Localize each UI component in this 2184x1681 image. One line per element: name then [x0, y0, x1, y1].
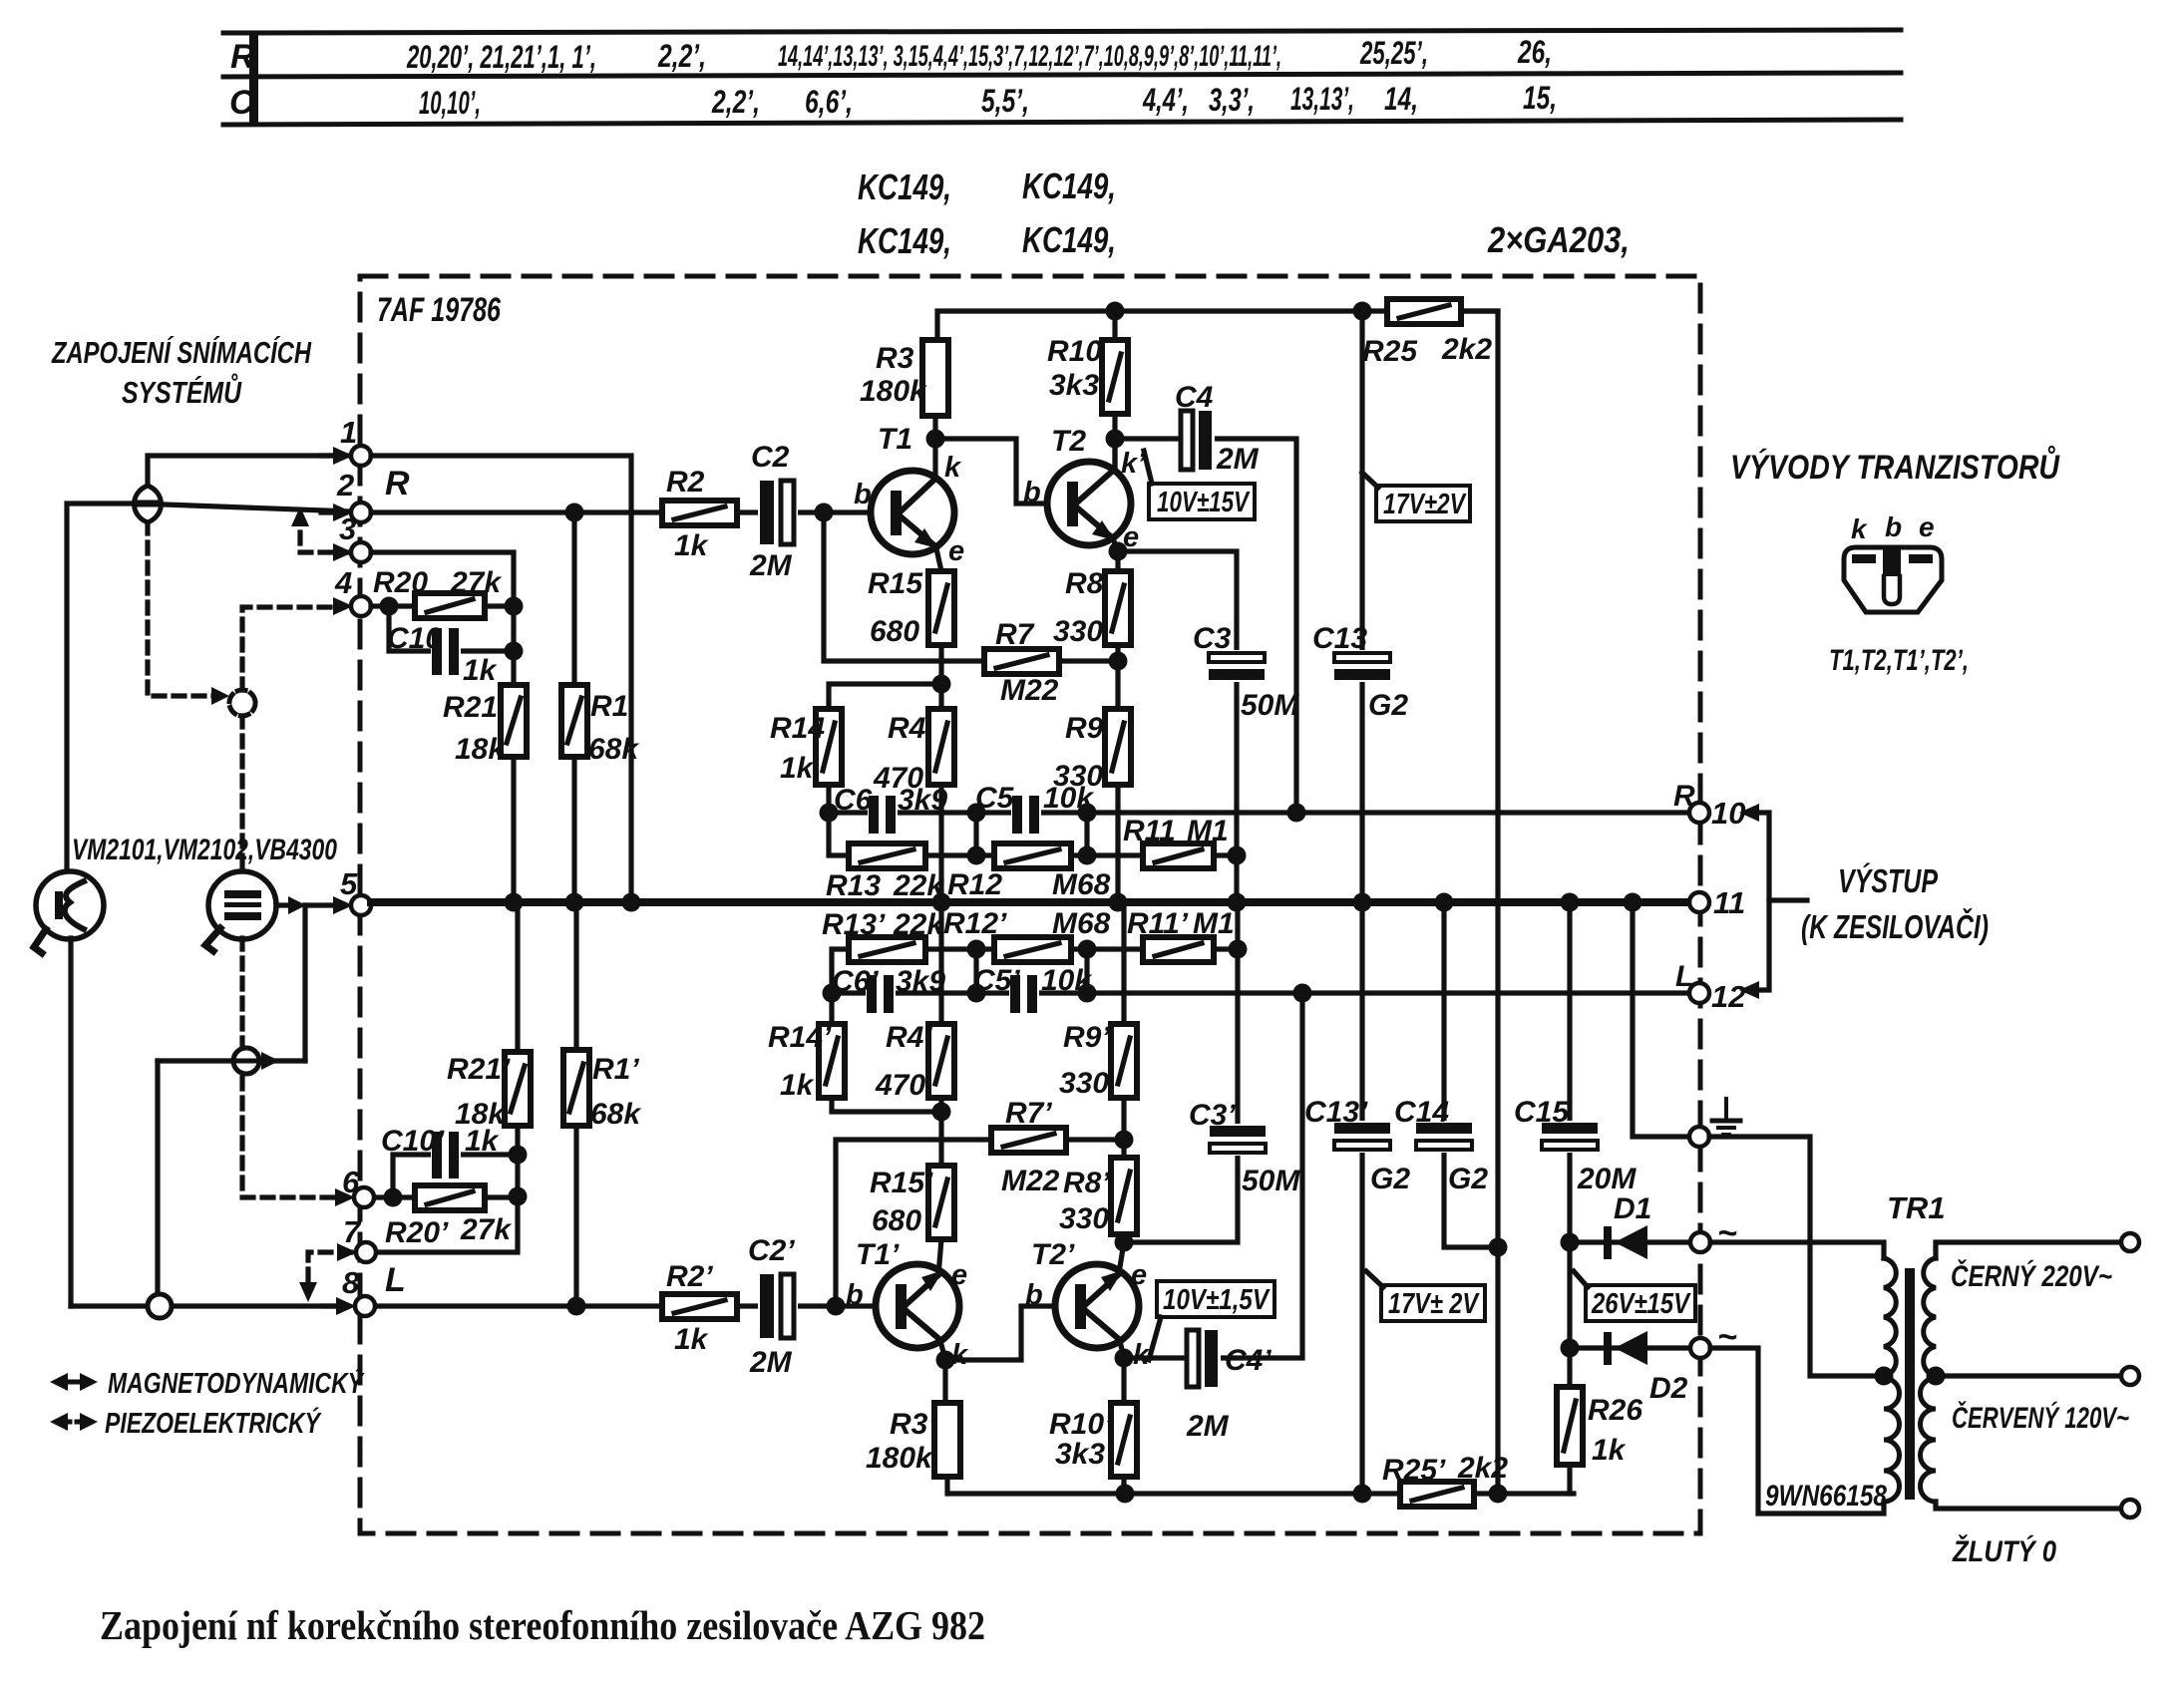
svg-text:2M: 2M [1186, 1410, 1230, 1443]
svg-text:R26: R26 [1588, 1394, 1642, 1427]
svg-text:M1: M1 [1193, 907, 1235, 940]
svg-text:C15: C15 [1514, 1096, 1570, 1129]
svg-text:C2ʼ: C2ʼ [748, 1234, 795, 1267]
connector ring symbol (magnetodynamic L) [148, 1294, 172, 1318]
terminal 6 [335, 1188, 355, 1206]
wire C15 column [1567, 902, 1572, 1124]
wire R14 branch [829, 684, 941, 709]
connector lens symbol (magnetodynamic R) [135, 486, 162, 522]
wire C6prime right to R13prime R12prime node [976, 949, 1087, 993]
wire L feed to terminal8 [71, 1303, 336, 1308]
svg-text:ŽLUTÝ 0: ŽLUTÝ 0 [1952, 1534, 2056, 1568]
node R10prime rail junction [1116, 1485, 1135, 1504]
svg-text:R15ʼ: R15ʼ [870, 1167, 933, 1199]
magnetodynamic pickup VM2101 [36, 871, 104, 939]
wire T2prime emitter to C3prime [1124, 1154, 1238, 1242]
svg-text:ČERNÝ 220V~: ČERNÝ 220V~ [1951, 1259, 2112, 1293]
node C10 right junction [505, 642, 524, 661]
svg-text:b: b [1025, 1279, 1043, 1311]
svg-text:T1,T2,T1ʼ,T2ʼ,: T1,T2,T1ʼ,T2ʼ, [1829, 644, 1969, 677]
wire R10 column [1112, 311, 1117, 474]
svg-text:R12: R12 [947, 868, 1002, 901]
svg-text:18k: 18k [455, 1098, 506, 1131]
node T1 collector [926, 430, 945, 449]
svg-text:2k2: 2k2 [1441, 333, 1492, 366]
svg-text:R14ʼ: R14ʼ [768, 1021, 832, 1054]
wire dashed piezo to terminal6 [242, 1194, 339, 1199]
svg-text:9WN66158: 9WN66158 [1765, 1480, 1887, 1513]
wire piezo node down [302, 905, 307, 1061]
wire C3prime column to ground bus [1235, 902, 1240, 1128]
svg-text:2M: 2M [749, 549, 793, 582]
wire C6 C5 output row to terminal 10 [829, 810, 1690, 815]
wire T1prime emitter to R15prime R4prime column [938, 902, 941, 1275]
svg-text:M68: M68 [1052, 907, 1111, 940]
capacitor C6prime [866, 975, 896, 1013]
svg-text:C14: C14 [1394, 1096, 1449, 1129]
svg-text:VÝSTUP: VÝSTUP [1838, 862, 1939, 899]
wire C10prime branch [393, 1155, 518, 1197]
wire C5prime right to R12prime R11prime node [1087, 949, 1238, 993]
svg-text:KC149,: KC149, [858, 167, 951, 207]
component list table [223, 30, 1901, 125]
svg-text:k: k [1851, 513, 1868, 544]
wire L output row to terminal 12 [832, 990, 1690, 995]
svg-text:1k: 1k [780, 752, 815, 785]
svg-text:2×GA203,: 2×GA203, [1487, 219, 1630, 260]
node R11 C3 junction [1228, 846, 1247, 865]
capacitor C14 [1414, 1121, 1474, 1153]
wire T1 emitter to R15 R4 column [935, 544, 941, 902]
node R1 bus junction [565, 893, 584, 912]
svg-text:R4: R4 [888, 712, 926, 745]
svg-text:26,: 26, [1517, 34, 1552, 70]
svg-text:470: 470 [875, 1069, 925, 1102]
svg-text:T2: T2 [1051, 425, 1086, 458]
svg-text:5,5ʼ,: 5,5ʼ, [981, 83, 1029, 119]
svg-text:C10: C10 [387, 622, 442, 655]
wire R8prime R9prime column [1119, 902, 1124, 1273]
node arrow on L branch [261, 1052, 279, 1070]
svg-text:R10: R10 [1047, 335, 1102, 368]
transformer TR1 secondary winding [1924, 1258, 1936, 1376]
terminal 220V [2121, 1233, 2139, 1251]
node output bracket with arrows [1739, 804, 1807, 999]
terminal 1 [333, 447, 353, 465]
wire pickup bottom to L wire [68, 938, 73, 1306]
node R13prime R12prime junction [967, 940, 986, 959]
node D2 R26 junction [1561, 1339, 1580, 1358]
resistor R11prime [1143, 937, 1214, 962]
node primary center tap [1875, 1367, 1894, 1386]
wire dashed terminal3 probe [300, 526, 351, 552]
svg-text:k: k [951, 1339, 969, 1371]
node C5 output junction [1078, 804, 1097, 823]
svg-text:b: b [1885, 511, 1902, 542]
svg-text:2k2: 2k2 [1457, 1452, 1508, 1485]
node terminal4 junction [380, 597, 399, 616]
wire C14 column [1441, 902, 1446, 1124]
wire R1 column [571, 512, 576, 902]
wire R21prime column to bus [515, 1126, 520, 1155]
svg-text:R7: R7 [995, 618, 1035, 651]
node R15 R4 R14 junction [932, 675, 951, 694]
wire R13 row [829, 813, 976, 855]
terminal 2 [333, 504, 353, 521]
svg-text:KC149,: KC149, [1022, 219, 1116, 260]
svg-text:KC149,: KC149, [858, 220, 951, 261]
svg-text:SYSTÉMŮ: SYSTÉMŮ [122, 372, 242, 410]
diode D2 [1604, 1331, 1647, 1365]
svg-text:14,: 14, [1384, 81, 1418, 117]
node R12prime R11prime junction [1078, 940, 1097, 959]
node C6prime C5prime junction [967, 984, 986, 1003]
wire C4prime row [1124, 1355, 1187, 1360]
svg-text:1k: 1k [780, 1069, 815, 1102]
svg-text:3k3: 3k3 [1049, 369, 1099, 402]
svg-text:C2: C2 [751, 441, 790, 474]
wire secondary 220V [1936, 1242, 2121, 1258]
node C6 C5 junction [967, 804, 986, 823]
svg-text:PIEZOELEKTRICKÝ: PIEZOELEKTRICKÝ [105, 1407, 322, 1440]
svg-text:G2: G2 [1448, 1163, 1488, 1195]
wire R21 column to bus [511, 757, 516, 902]
svg-text:1k: 1k [674, 529, 709, 562]
node R14prime C6prime junction [823, 984, 842, 1003]
svg-text:7: 7 [343, 1214, 362, 1249]
node T1 base junction [815, 504, 834, 522]
resistor R7prime [991, 1128, 1066, 1153]
transistor T2 [1047, 462, 1131, 545]
svg-text:C13: C13 [1312, 622, 1367, 655]
svg-text:R20: R20 [373, 566, 428, 599]
svg-text:14,14ʼ,13,13ʼ, 3,15,4,4ʼ,15,3ʼ: 14,14ʼ,13,13ʼ, 3,15,4,4ʼ,15,3ʼ,7,12,12ʼ,… [778, 40, 1281, 73]
wire R input row terminal2 to T1 base [371, 509, 872, 514]
svg-text:R2: R2 [666, 466, 705, 499]
terminal 8 [336, 1297, 356, 1315]
svg-text:R4ʼ: R4ʼ [886, 1021, 932, 1054]
svg-text:R25ʼ: R25ʼ [1382, 1454, 1446, 1487]
resistor R1prime [563, 1050, 589, 1126]
resistor R15prime [928, 1166, 954, 1239]
resistor R26 [1557, 1387, 1583, 1465]
capacitor C5 [1011, 796, 1041, 834]
svg-text:2,2ʼ,: 2,2ʼ, [657, 38, 706, 74]
terminal 5 [333, 896, 353, 914]
wire supply rail bottom [948, 1491, 1574, 1496]
svg-text:C10ʼ: C10ʼ [381, 1125, 445, 1158]
wire T1prime base feedback up [836, 1140, 991, 1306]
node R1prime bottom junction [567, 1297, 586, 1316]
svg-text:R8ʼ: R8ʼ [1063, 1167, 1110, 1199]
transformer TR1 primary winding [1884, 1258, 1896, 1376]
svg-text:R8: R8 [1065, 567, 1104, 600]
wire ground terminal to primary center tap [1709, 1137, 1884, 1376]
svg-text:1: 1 [340, 415, 357, 450]
resistor R12 [994, 843, 1071, 868]
svg-text:R21ʼ: R21ʼ [447, 1053, 511, 1086]
node T1prime base junction [827, 1297, 846, 1316]
wire secondary 120V tap [1936, 1373, 2121, 1378]
svg-text:R14: R14 [770, 712, 825, 745]
wire D2 row [1570, 1345, 1689, 1350]
svg-text:b: b [1023, 477, 1041, 508]
transistor T1 [871, 471, 954, 554]
wire R1prime column [573, 1126, 578, 1306]
wire L branch down to ring [155, 1061, 160, 1295]
capacitor C5prime [1009, 975, 1039, 1013]
node legend dashed double arrow [62, 1420, 86, 1425]
capacitor C2 [758, 481, 798, 544]
svg-text:R1: R1 [590, 690, 628, 723]
value callout 10V±15V [1144, 451, 1255, 519]
wire terminal3 to R20 junction [371, 552, 514, 604]
svg-text:27k: 27k [460, 1213, 512, 1246]
node R25prime rail junction [1353, 1485, 1372, 1504]
svg-text:C3: C3 [1193, 622, 1232, 655]
node T2 collector [1106, 430, 1125, 449]
resistor R7 [984, 649, 1059, 674]
dashed module box 7AF19786 [360, 276, 1700, 1533]
svg-text:50M: 50M [1241, 689, 1299, 722]
svg-text:1k: 1k [674, 1323, 709, 1356]
capacitor C4prime [1185, 1330, 1221, 1387]
wire table vertical divider [249, 31, 258, 123]
wire R14prime top to C6prime node [829, 993, 834, 1024]
svg-text:6,6ʼ,: 6,6ʼ, [805, 84, 853, 120]
wire terminal4 row through R20 [371, 606, 514, 685]
svg-text:VÝVODY TRANZISTORŮ: VÝVODY TRANZISTORŮ [1730, 446, 2060, 487]
wire R10prime column [1121, 1358, 1126, 1403]
wire D1 row [1570, 1239, 1689, 1244]
svg-text:D1: D1 [1614, 1192, 1651, 1225]
transformer core [1905, 1268, 1915, 1500]
node R11prime C3prime junction [1229, 940, 1248, 959]
svg-text:VM2101,VM2102,VB4300: VM2101,VM2102,VB4300 [72, 834, 337, 866]
capacitor C10prime [431, 1132, 461, 1178]
input terminals 1-8 [321, 446, 376, 1316]
wire T2prime collector node [1119, 1337, 1124, 1358]
svg-text:1k: 1k [1592, 1434, 1627, 1467]
value callout 26V±15V [1574, 1271, 1695, 1321]
svg-text:27k: 27k [450, 566, 502, 599]
node C10prime right junction [509, 1146, 528, 1165]
svg-text:T1ʼ: T1ʼ [856, 1238, 900, 1271]
wire ground bus (thick) [371, 898, 1690, 906]
resistor R4 [928, 709, 954, 785]
svg-text:6: 6 [342, 1165, 360, 1199]
node C3 bus junction [1228, 893, 1247, 912]
capacitor C10 [431, 628, 461, 675]
svg-text:10,10ʼ,: 10,10ʼ, [419, 85, 481, 121]
resistor R13 [849, 843, 925, 868]
node R21 bus junction [505, 893, 524, 912]
svg-text:R3ʼ: R3ʼ [890, 1408, 936, 1441]
node arrow piezo output [288, 896, 306, 914]
svg-text:R: R [385, 465, 410, 503]
node legend solid double arrow [60, 1380, 88, 1385]
terminal 11 ground output [1689, 892, 1709, 912]
svg-text:680: 680 [870, 615, 919, 648]
node C15 D1 junction [1561, 1233, 1580, 1252]
wire dashed terminal7 probe [308, 1252, 351, 1283]
svg-text:C13ʼ: C13ʼ [1304, 1096, 1368, 1129]
wire secondary 0V [1936, 1502, 2121, 1509]
capacitor C13 [1332, 650, 1392, 682]
svg-text:L: L [1675, 960, 1693, 993]
svg-text:1k: 1k [463, 654, 498, 687]
resistor R20prime [415, 1185, 485, 1210]
svg-text:680: 680 [872, 1204, 921, 1237]
svg-text:C6: C6 [834, 784, 873, 817]
transistor T1prime [876, 1264, 959, 1348]
transistor T2prime [1055, 1264, 1139, 1348]
svg-text:R2ʼ: R2ʼ [666, 1260, 713, 1293]
svg-text:G2: G2 [1368, 689, 1408, 722]
svg-text:10V±1,5V: 10V±1,5V [1163, 1284, 1271, 1316]
wire dashed connector to terminal4 [242, 607, 339, 690]
svg-text:R9ʼ: R9ʼ [1063, 1021, 1110, 1054]
node C4prime output junction [1293, 984, 1312, 1003]
capacitor C13prime [1332, 1121, 1392, 1153]
connector circle symbol (piezo R) [229, 690, 255, 716]
svg-text:330: 330 [1059, 1067, 1109, 1100]
terminal AC1 [1690, 1232, 1710, 1252]
resistor R8prime [1111, 1158, 1137, 1234]
capacitor C15 [1540, 1121, 1600, 1153]
ground symbol [1712, 1099, 1740, 1135]
value callout 17V±2V bottom [1366, 1271, 1485, 1321]
svg-text:2M: 2M [749, 1346, 793, 1379]
resistor R25 [1387, 299, 1461, 324]
svg-text:KC149,: KC149, [1022, 166, 1116, 206]
node C14 bus junction [1435, 893, 1454, 912]
wire dashed piezo to arrow [239, 938, 244, 1197]
node arrow down to L wire [299, 1282, 317, 1302]
node R25 rail junction [1353, 302, 1372, 321]
svg-text:T2ʼ: T2ʼ [1031, 1238, 1075, 1271]
wire supply rail top [937, 311, 1498, 340]
capacitor C6 [868, 796, 898, 834]
transistor package pinout drawing [1844, 547, 1942, 612]
resistor R20 [415, 593, 485, 618]
capacitor C4 [1179, 411, 1215, 470]
wire R14 bottom to C6 node [826, 785, 831, 813]
wire table middle line [223, 73, 1901, 77]
terminal 10 R output [1689, 803, 1709, 823]
node R9 bus junction [1109, 893, 1128, 912]
resistor R15 [928, 571, 954, 645]
node T2prime collector [1115, 1349, 1134, 1368]
svg-text:330: 330 [1053, 615, 1103, 648]
wire L input row terminal8 to T1prime base [376, 1303, 877, 1308]
svg-text:3k9: 3k9 [898, 784, 947, 817]
terminal AC2 [1690, 1338, 1710, 1358]
node R20 right junction [505, 597, 524, 616]
svg-text:C: C [229, 84, 254, 122]
svg-text:68k: 68k [590, 1098, 641, 1131]
svg-text:R1ʼ: R1ʼ [592, 1053, 639, 1086]
resistor R2 [662, 501, 737, 525]
resistor R2prime [662, 1294, 737, 1319]
svg-text:e: e [1919, 511, 1935, 542]
svg-text:2: 2 [336, 468, 354, 503]
svg-text:R25: R25 [1362, 335, 1418, 368]
node C4 output junction [1287, 804, 1306, 823]
node R14 C6 junction [820, 804, 839, 823]
node arrow up to R wire [291, 506, 309, 526]
wire R7prime to T2prime emitter column [1066, 1137, 1124, 1142]
resistor R10 [1102, 340, 1128, 414]
node C13 bus junction [1353, 893, 1372, 912]
svg-text:13,13ʼ,: 13,13ʼ, [1290, 81, 1354, 117]
node C15 bus junction [1561, 893, 1580, 912]
svg-text:3k3: 3k3 [1055, 1438, 1105, 1471]
svg-text:180k: 180k [860, 375, 927, 408]
resistor R9prime [1111, 1024, 1137, 1098]
piezoelectric pickup VB4300 [208, 871, 276, 939]
svg-text:12: 12 [1711, 979, 1745, 1014]
wire terminal2 to pickup column [67, 504, 351, 872]
svg-text:e: e [951, 1259, 967, 1291]
node C5prime output junction [1078, 984, 1097, 1003]
svg-text:T1: T1 [878, 423, 912, 456]
node R20prime right junction [509, 1187, 528, 1206]
svg-text:8: 8 [342, 1265, 360, 1300]
wire terminal6 row through R20prime [375, 1155, 518, 1197]
wire dashed connector to piezo pickup [239, 716, 244, 872]
resistor R10prime [1111, 1403, 1137, 1477]
wire R7 to T2 emitter column [1059, 658, 1118, 663]
node T2 emitter [1109, 542, 1128, 561]
svg-text:~: ~ [1717, 1214, 1737, 1252]
svg-text:7AF 19786: 7AF 19786 [377, 291, 502, 329]
svg-text:R13ʼ: R13ʼ [822, 908, 886, 941]
svg-text:20,20ʼ, 21,21ʼ,1, 1ʼ,: 20,20ʼ, 21,21ʼ,1, 1ʼ, [406, 39, 596, 75]
svg-text:C3ʼ: C3ʼ [1189, 1099, 1236, 1132]
wire R26 bottom to rail [1567, 1465, 1572, 1494]
node R7prime R8prime junction [1115, 1131, 1134, 1150]
svg-text:17V±2V: 17V±2V [1383, 489, 1467, 520]
capacitor C3 [1207, 650, 1267, 682]
node C14 supply junction [1489, 1238, 1508, 1257]
svg-text:Zapojení nf korekčního stereof: Zapojení nf korekčního stereofonního zes… [100, 1602, 985, 1648]
wire C13prime column [1359, 902, 1364, 1124]
connector circle symbol (piezo L) [233, 1048, 259, 1074]
node R10 rail junction [1106, 302, 1125, 321]
wire dashed lens to connector circle [148, 522, 221, 696]
svg-text:3k9: 3k9 [896, 965, 945, 998]
terminal 0V [2121, 1500, 2139, 1517]
resistor R4prime [928, 1024, 954, 1098]
wire R13prime row [832, 949, 976, 993]
svg-text:ČERVENÝ 120V~: ČERVENÝ 120V~ [1952, 1401, 2129, 1435]
wire C4 to feedback column [1209, 439, 1296, 813]
wire C4 row [1115, 436, 1181, 441]
wire T1 base feedback down [824, 512, 984, 661]
node R4 bus junction [932, 893, 951, 912]
svg-text:k: k [944, 452, 962, 484]
wire C6 right to R13 R12 node [976, 813, 1087, 855]
node R7 R8 junction [1109, 652, 1128, 671]
svg-text:R21: R21 [443, 691, 498, 724]
terminal 12 L output [1689, 983, 1709, 1003]
wire R3prime column [939, 1337, 945, 1403]
wire AC2 to primary bottom [1710, 1348, 1884, 1513]
svg-text:22k: 22k [893, 908, 944, 941]
wire terminal1 line down to bus [371, 456, 631, 902]
wire C10 branch [389, 606, 514, 651]
